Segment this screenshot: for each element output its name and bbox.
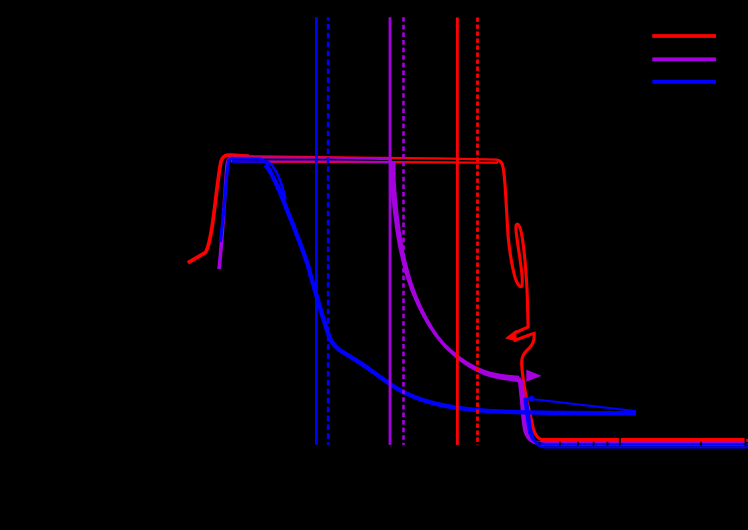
legend purple line <box>652 57 716 61</box>
blue upper plateau B1 <box>232 157 261 160</box>
red arrowhead (left-pointing) <box>505 330 517 342</box>
blue final drop 2 (bottom-most line, over ticks) <box>527 399 748 447</box>
purple curve drop P1 <box>390 159 519 377</box>
red dashed vertical line <box>476 18 479 445</box>
purple dashed vertical line <box>402 17 405 445</box>
red curve upper plateau R1 <box>245 156 497 159</box>
blue doubleback arrowhead (left-pointing) <box>523 395 533 402</box>
purple curve lower plateau P2 <box>231 160 393 163</box>
blue solid vertical line <box>315 17 318 445</box>
blue sigmoid B2 start tail <box>267 162 286 199</box>
black major tick over bottom lines <box>619 438 621 446</box>
purple final drop to bottom P2 <box>522 380 745 444</box>
purple final drop to bottom P1 <box>519 377 745 443</box>
red curve lower plateau R2 <box>240 162 498 163</box>
purple curve upper plateau P1 <box>231 158 390 160</box>
purple curve drop P2 <box>394 162 522 381</box>
blue sigmoid descent (merged thick) <box>266 165 637 413</box>
blue doubleback diagonal <box>525 398 637 411</box>
purple curve rise <box>219 158 232 269</box>
blue curve rise <box>220 158 233 242</box>
red curve rise <box>188 155 249 263</box>
purple arrowhead (right-pointing) <box>526 370 541 382</box>
blue dashed vertical line <box>327 17 330 445</box>
legend blue line <box>652 80 716 84</box>
legend red line <box>652 34 716 38</box>
black minor ticks over bottom lines <box>539 442 702 446</box>
red curve squiggle drop with loop <box>497 160 748 440</box>
black right spine bar <box>745 437 747 445</box>
blue final drop 1 <box>525 398 748 444</box>
purple solid vertical line <box>389 17 392 445</box>
red bottom flat thickener <box>541 438 745 442</box>
red solid vertical line <box>456 18 459 445</box>
red curve R1 end hook <box>496 160 504 171</box>
blue sigmoid B1 knee <box>259 158 278 190</box>
blue lower plateau B2 <box>232 160 267 163</box>
